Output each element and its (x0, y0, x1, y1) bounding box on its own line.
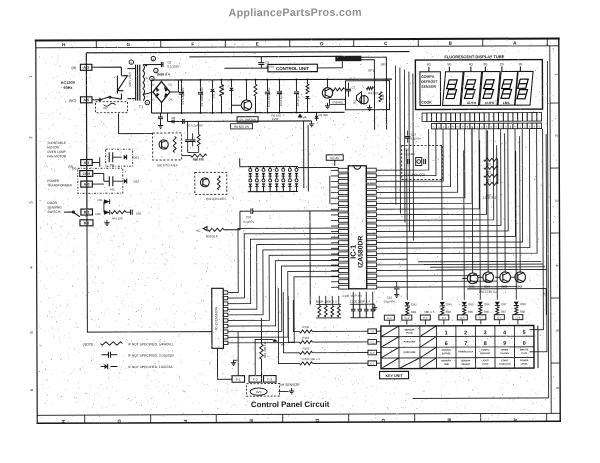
wire IC-2 bottom to F row (217, 348, 232, 379)
diode D97 (495, 302, 500, 306)
svg-text:NOTE :: NOTE : (83, 343, 95, 347)
svg-text:2SC1740 X 4: 2SC1740 X 4 (479, 290, 498, 294)
thermal protector (117, 76, 127, 91)
svg-text:G-0: G-0 (370, 351, 375, 355)
capacitor C6 (182, 119, 184, 124)
svg-text:AH SENSOR: AH SENSOR (280, 383, 301, 387)
svg-text:R61: R61 (110, 163, 115, 167)
AH sensor block (247, 384, 280, 397)
svg-text:F-3: F-3 (267, 378, 272, 382)
diode D94 (440, 302, 445, 306)
svg-text:IF NOT SPECIFIED, 0.01µ/50V: IF NOT SPECIFIED, 0.01µ/50V (128, 353, 175, 357)
wire COM to coil (93, 172, 104, 174)
svg-text:R85: R85 (468, 310, 474, 314)
wire door diodes (103, 202, 105, 213)
wire low bus (168, 120, 312, 123)
diode D98 (514, 302, 519, 306)
wire emitter bus (467, 288, 546, 290)
svg-text:C3 0.1µ/50V: C3 0.1µ/50V (279, 90, 283, 106)
svg-text:SENSOR: SENSOR (421, 85, 436, 89)
resistor R11 (484, 166, 498, 169)
svg-text:1N58 X 4: 1N58 X 4 (156, 72, 170, 76)
capacitor C4 (266, 80, 268, 91)
ground AH sensor (279, 391, 289, 393)
svg-text:R84: R84 (446, 310, 452, 314)
diode D12 (230, 80, 232, 87)
display digit module 5 (515, 71, 533, 105)
wire C91 (240, 210, 251, 212)
svg-text:CH2: CH2 (501, 284, 507, 288)
wire to control unit (224, 67, 267, 69)
svg-text:C100 330P X 4: C100 330P X 4 (342, 294, 362, 298)
opto block COM A-0 (78, 168, 123, 193)
svg-text:0.1µ/50V: 0.1µ/50V (243, 220, 254, 224)
svg-text:R11: R11 (486, 170, 491, 174)
svg-text:POPCORN: POPCORN (404, 342, 416, 344)
display digit module 2 (461, 72, 482, 106)
svg-text:G-2: G-2 (387, 316, 392, 320)
resistor R88 (515, 307, 518, 315)
wire Q80 to R86 (182, 155, 191, 157)
control unit label box (268, 64, 318, 72)
svg-text:OVEN LAMP: OVEN LAMP (47, 150, 66, 154)
frame border (36, 38, 560, 423)
svg-text:D96: D96 (484, 302, 490, 306)
svg-text:7: 7 (464, 341, 467, 347)
transistor CH3 2SC1740 (515, 272, 526, 283)
terminal A-1 (81, 159, 93, 165)
svg-text:8: 8 (484, 341, 487, 347)
frame column ticks bottom (61, 413, 547, 424)
wire mid bus (152, 111, 345, 114)
svg-text:CONTROL UNIT: CONTROL UNIT (276, 66, 309, 71)
svg-text:IC-2 IZA561DA: IC-2 IZA561DA (214, 306, 218, 330)
wire right elbow (529, 129, 544, 330)
svg-text:C91: C91 (246, 215, 252, 219)
resistor R12 (484, 174, 498, 177)
key function rows (441, 348, 529, 366)
connector P-3 (439, 315, 449, 320)
wire A-1 to relay coil (92, 161, 99, 163)
fluorescent display tube outline (415, 60, 542, 110)
svg-text:C2 1000µ/10V: C2 1000µ/10V (200, 87, 204, 106)
wire R90 to node (224, 211, 240, 230)
resistor R61 100 (111, 211, 126, 214)
connector P-0 (420, 315, 430, 320)
terminal B-2 (80, 220, 93, 226)
svg-text:F-2: F-2 (253, 378, 258, 382)
capacitor C1 (180, 80, 182, 91)
svg-text:VF2: VF2 (381, 63, 387, 67)
svg-text:T1: T1 (139, 105, 143, 109)
svg-text:MEMORY: MEMORY (441, 360, 451, 362)
resistor R1 (220, 80, 222, 84)
svg-text:1G: 1G (518, 62, 523, 66)
svg-text:C6 0.1µ/50V: C6 0.1µ/50V (187, 123, 203, 127)
svg-text:IZA580DR: IZA580DR (358, 236, 365, 268)
svg-text:COOK: COOK (482, 364, 489, 366)
resistor R10 (484, 158, 498, 161)
display grid labels (427, 62, 523, 72)
connector G-2 (384, 315, 394, 320)
wire rail to Q80 (119, 114, 153, 134)
svg-text:R10: R10 (486, 162, 492, 166)
wire network risers (278, 288, 299, 364)
svg-text:FROZEN: FROZEN (442, 350, 451, 352)
pin number 3 (150, 76, 154, 80)
svg-text:18K x 5: 18K x 5 (424, 310, 435, 314)
wire secondary top (143, 64, 162, 66)
wire matrix right double (537, 325, 539, 368)
diode D5 (172, 119, 174, 123)
key matrix diagonal cells (381, 326, 437, 369)
transistor CH1 2SC1740 (483, 272, 494, 283)
relay coil RY2 (108, 176, 110, 186)
wire IC1 top feed (343, 157, 347, 159)
svg-text:P-3: P-3 (442, 316, 447, 320)
terminal A-0 (81, 181, 93, 187)
wire right elbow 2 (529, 134, 547, 352)
svg-text:TURNTABLE: TURNTABLE (47, 141, 66, 145)
svg-text:5G: 5G (447, 62, 452, 66)
relay contact RY (100, 97, 109, 100)
svg-text:CT1 CERALOCK: CT1 CERALOCK (404, 173, 426, 177)
svg-text:3: 3 (484, 330, 487, 336)
capacitor C10 (396, 282, 398, 287)
connector G-5 (457, 315, 467, 320)
svg-text:IF NOT SPECIFIED, 1/4W(AL): IF NOT SPECIFIED, 1/4W(AL) (128, 342, 173, 346)
svg-text:R86: R86 (484, 310, 490, 314)
svg-text:Control Panel Circuit: Control Panel Circuit (251, 400, 330, 409)
key unit label box (380, 371, 409, 378)
display legend box (420, 72, 441, 106)
svg-text:FOOD: FOOD (406, 333, 413, 335)
ground door sense (106, 220, 108, 223)
svg-text:4G: 4G (469, 62, 474, 66)
svg-text:D97: D97 (501, 302, 507, 306)
display digit module 4 (498, 71, 518, 105)
IC-1 IZA580DR body (348, 166, 366, 289)
svg-text:D11: D11 (211, 93, 215, 98)
svg-text:F: F (183, 420, 188, 423)
wire fan IC-1 right to driver columns (376, 140, 516, 300)
diode D13 (305, 96, 309, 99)
svg-text:IC-1: IC-1 (349, 245, 358, 259)
svg-text:2SD400: 2SD400 (332, 100, 343, 104)
wire network feed verticals (319, 292, 373, 305)
svg-text:COM: COM (83, 172, 91, 176)
frame column ticks top (62, 39, 547, 48)
svg-text:VC-4V: VC-4V (330, 156, 340, 160)
diode D96 (478, 302, 483, 306)
resistor R43 (379, 92, 382, 102)
svg-text:0.1µ/40V: 0.1µ/40V (404, 152, 415, 156)
resistor R87 (496, 307, 499, 315)
capacitor C2 (199, 80, 201, 91)
svg-text:DEFROST: DEFROST (421, 80, 438, 84)
label Q2 2SD400 (329, 99, 345, 104)
svg-text:SWITCH: SWITCH (47, 210, 60, 214)
wire IC-1 left stubs (331, 170, 339, 287)
connector F-2 (249, 376, 262, 383)
svg-text:Q80 DTC143ES: Q80 DTC143ES (157, 163, 178, 167)
svg-text:S-7: S-7 (479, 316, 484, 320)
svg-text:T-0: T-0 (370, 330, 374, 334)
resistor R7 (306, 79, 308, 83)
node VC-4V (326, 155, 343, 160)
capacitor C7 (347, 83, 349, 89)
svg-text:POPCORN: POPCORN (404, 352, 416, 354)
wire second top rail (189, 55, 342, 58)
wire C90 R96 join (188, 151, 199, 153)
frame row ticks left (28, 75, 34, 392)
capacitor C0 (160, 62, 162, 67)
IC-1 right pins (366, 168, 376, 289)
svg-text:Q92 DTA144ES: Q92 DTA144ES (206, 197, 227, 201)
resistor R41 (332, 88, 344, 91)
connector G-3 (402, 315, 412, 320)
svg-text:MOV 250V: MOV 250V (128, 72, 132, 87)
svg-text:R41 1K: R41 1K (368, 91, 379, 95)
svg-text:R103 10K x 4: R103 10K x 4 (302, 357, 320, 361)
svg-text:F-1: F-1 (236, 378, 241, 382)
frame row ticks right (550, 73, 560, 390)
capacitor C8 (160, 113, 162, 116)
svg-text:R102: R102 (302, 347, 309, 351)
resistor R13 (484, 182, 498, 185)
svg-text:(H): (H) (72, 166, 76, 170)
key matrix row labels (404, 330, 416, 355)
svg-text:G: G (117, 420, 122, 424)
svg-text:MOTOR: MOTOR (47, 145, 60, 149)
svg-text:C13: C13 (411, 133, 417, 137)
svg-text:D2: D2 (168, 82, 172, 86)
display pin row 2 (432, 123, 542, 129)
svg-text:C60: C60 (136, 212, 142, 216)
svg-text:C1 6.8µ/50V: C1 6.8µ/50V (181, 88, 185, 105)
svg-text:2G: 2G (500, 62, 505, 66)
svg-text:POWER: POWER (520, 360, 529, 362)
display digit module 1 (442, 72, 463, 106)
wire collector rails (418, 261, 547, 273)
IC-2 pins (223, 291, 228, 345)
svg-text:R12: R12 (486, 178, 492, 182)
key digits row 1-5 (445, 330, 526, 336)
svg-text:CUPS: CUPS (485, 101, 495, 105)
wire diode array feed (240, 166, 248, 168)
connector F-1 (232, 376, 245, 383)
diode D61 (124, 155, 127, 160)
resistor R82 (406, 307, 409, 315)
ground C100 (373, 303, 375, 305)
svg-text:CH0: CH0 (469, 285, 475, 289)
junction dots (180, 78, 328, 114)
svg-text:VC: VC (196, 229, 201, 233)
svg-text:DEFROST: DEFROST (480, 353, 491, 355)
transistor Q80 block (153, 133, 182, 160)
label Q1 2SB708 (237, 117, 258, 122)
wire main top rail (86, 52, 409, 53)
svg-text:0: 0 (523, 341, 526, 347)
svg-text:0.1/125V: 0.1/125V (167, 64, 179, 68)
svg-text:R88: R88 (520, 310, 526, 314)
IC-1 left pins (338, 168, 348, 289)
key unit matrix grid (381, 325, 534, 368)
wire F-2 riser VA (255, 339, 271, 375)
node bridge left (143, 92, 153, 95)
terminal A-3 (80, 64, 92, 70)
ceramic resonator CT1 block (402, 145, 443, 179)
svg-text:COOK: COOK (421, 100, 432, 104)
bridge rectifier D1-D4 (153, 81, 170, 102)
wire bottom boundary (413, 397, 549, 400)
wire transistor columns (472, 127, 520, 270)
connector G-4 (513, 315, 523, 320)
svg-text:PLUS: PLUS (521, 353, 527, 355)
svg-text:5: 5 (523, 330, 526, 336)
svg-text:D98: D98 (520, 302, 526, 306)
svg-text:TIMER/CLOCK: TIMER/CLOCK (458, 351, 474, 353)
capacitor C13 (405, 136, 410, 138)
relay coil RY1 (106, 149, 133, 166)
svg-text:LBS.: LBS. (503, 101, 511, 105)
connector F-3 (264, 376, 277, 383)
wire bus drop left (150, 80, 152, 113)
svg-text:COMPU: COMPU (421, 75, 435, 79)
svg-text:D61: D61 (133, 156, 139, 160)
resistor R84 (441, 307, 444, 315)
diode D95 (462, 302, 467, 306)
svg-text:PLATES: PLATES (500, 352, 509, 355)
buzzer block box (345, 81, 389, 110)
svg-text:R100: R100 (302, 325, 309, 329)
svg-text:R6 39K: R6 39K (319, 113, 329, 117)
svg-text:LIGHT/: LIGHT/ (482, 360, 490, 362)
wire fan IC-1 right to display pins (376, 129, 537, 254)
capacitor C60 (126, 211, 130, 213)
connector G-1 (494, 315, 504, 320)
diode array D70-D77 (248, 166, 299, 191)
transistor Q1 (241, 100, 251, 110)
svg-text:D90: D90 (95, 212, 101, 216)
ground buzzer (369, 105, 371, 108)
capacitor C5 (295, 80, 297, 91)
resistor R86 (479, 307, 482, 315)
label R8 820 1W (231, 124, 253, 129)
wire A-5 to relay (92, 99, 100, 101)
capacitor C9 (260, 57, 262, 62)
diode D91 (92, 211, 103, 213)
svg-text:AppliancePartsPros.com: AppliancePartsPros.com (228, 7, 361, 20)
svg-text:1: 1 (445, 330, 448, 336)
svg-text:T-1: T-1 (370, 340, 374, 344)
svg-text:4: 4 (503, 330, 506, 336)
resistor R3 (254, 80, 256, 84)
svg-text:(NC): (NC) (69, 99, 77, 103)
transistor Q2 (322, 88, 332, 98)
wire R ladder (497, 160, 499, 184)
svg-text:A-3: A-3 (83, 66, 89, 70)
wire door switch (64, 212, 80, 217)
wire VF1 (361, 60, 375, 130)
svg-text:AVS: AVS (256, 390, 262, 394)
resistor R85 (463, 307, 466, 315)
resistor R81 (260, 318, 262, 344)
svg-text:R101: R101 (302, 336, 309, 340)
pin number 1 (151, 56, 155, 60)
svg-text:E: E (256, 41, 259, 46)
svg-text:CH1: CH1 (484, 285, 490, 289)
transistor CH0 2SC1740 (467, 273, 478, 284)
svg-text:H: H (61, 420, 66, 423)
terminal A-5 (80, 97, 92, 103)
connector S-7 (476, 315, 486, 320)
svg-text:D91: D91 (97, 198, 103, 202)
display pin row 1 (422, 113, 542, 122)
svg-text:6: 6 (445, 341, 448, 347)
transformer T1 core (137, 65, 139, 101)
wire A-3 to transformer (92, 66, 121, 68)
wire bridge bottom (161, 103, 163, 113)
resistor R86 (191, 154, 207, 157)
svg-text:IF NOT SPECIFIED, 1S2076A: IF NOT SPECIFIED, 1S2076A (128, 365, 173, 369)
ground F-1 (233, 359, 238, 361)
svg-text:R81 300 1W: R81 300 1W (263, 341, 267, 358)
key digits row 6-0 (445, 341, 526, 347)
wire display grid drops (395, 66, 413, 241)
wire right boundary (547, 61, 548, 398)
svg-text:D62: D62 (134, 180, 140, 184)
svg-text:R82: R82 (411, 310, 417, 314)
svg-text:G-4: G-4 (516, 316, 521, 320)
svg-text:60Hz: 60Hz (64, 86, 73, 90)
pin number 4 (154, 68, 158, 72)
svg-text:D92: D92 (411, 303, 417, 307)
svg-text:C7: C7 (351, 86, 355, 90)
svg-text:C5 47µ/16V: C5 47µ/16V (296, 91, 300, 106)
svg-text:S1: S1 (145, 76, 149, 80)
svg-text:F: F (191, 42, 194, 47)
svg-text:START: START (501, 359, 509, 362)
wire drop to network (309, 211, 311, 304)
pin number 5 (129, 60, 133, 64)
wire array to IC (298, 166, 338, 168)
svg-text:R8 820 1W: R8 820 1W (234, 125, 249, 129)
wire A-0 to coil (92, 183, 103, 185)
svg-text:G: G (126, 42, 130, 47)
diode D14 (316, 112, 318, 115)
svg-text:ENTREE: ENTREE (442, 353, 451, 355)
svg-text:6G: 6G (427, 62, 432, 66)
svg-text:A-0: A-0 (84, 182, 90, 186)
svg-text:C-2: C-2 (370, 362, 375, 366)
svg-text:E: E (249, 419, 254, 422)
svg-text:D94: D94 (446, 302, 452, 306)
svg-text:BZ: BZ (352, 100, 356, 104)
svg-text:R90 470: R90 470 (193, 157, 204, 161)
capacitor C81 (192, 133, 194, 139)
svg-text:B-2: B-2 (84, 221, 90, 225)
buzzer BZ (356, 92, 361, 104)
svg-text:TRANSFORMER: TRANSFORMER (47, 183, 72, 187)
svg-text:R10R 100K X 4: R10R 100K X 4 (316, 300, 337, 304)
svg-text:DOOR: DOOR (47, 201, 57, 205)
svg-text:B-1: B-1 (84, 210, 90, 214)
ground low bus (311, 121, 313, 124)
scan noise (37, 39, 559, 421)
svg-text:1/2W: 1/2W (272, 117, 279, 121)
capacitor C3 (278, 80, 280, 91)
